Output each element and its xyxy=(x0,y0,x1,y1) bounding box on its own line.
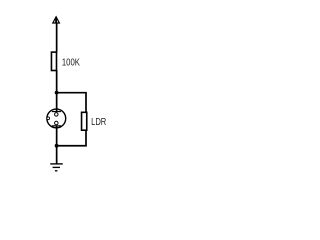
wire: arrow to resistor xyxy=(56,23,58,53)
pin 2 pad (left, case) xyxy=(47,117,50,120)
node junction (top) xyxy=(55,91,59,95)
pin 1 crossbar (top) xyxy=(52,111,61,113)
resistor R1 body xyxy=(51,52,56,70)
power supply arrow (+V) xyxy=(53,17,60,23)
LDR body xyxy=(82,112,87,130)
ground symbol xyxy=(50,164,63,171)
pin 1 pad (top) xyxy=(55,113,59,117)
microphone MIC1 (circular body, top view) xyxy=(47,109,66,128)
svg-text:LDR: LDR xyxy=(91,117,106,128)
wire: resistor to microphone top terminal xyxy=(56,70,58,111)
svg-text:100K: 100K xyxy=(62,57,80,68)
pin 3 pad (bottom) xyxy=(55,121,59,125)
pin 3 crossbar (bottom) xyxy=(52,125,61,127)
wire: junction to ground xyxy=(56,146,58,164)
wire: LDR down and left to bottom junction xyxy=(57,130,86,146)
node junction (bottom) xyxy=(55,144,59,148)
value label 100K xyxy=(62,57,80,68)
wire: microphone bottom terminal to junction xyxy=(56,126,58,146)
wire: branch right to LDR xyxy=(57,93,86,113)
label LDR xyxy=(91,117,106,128)
